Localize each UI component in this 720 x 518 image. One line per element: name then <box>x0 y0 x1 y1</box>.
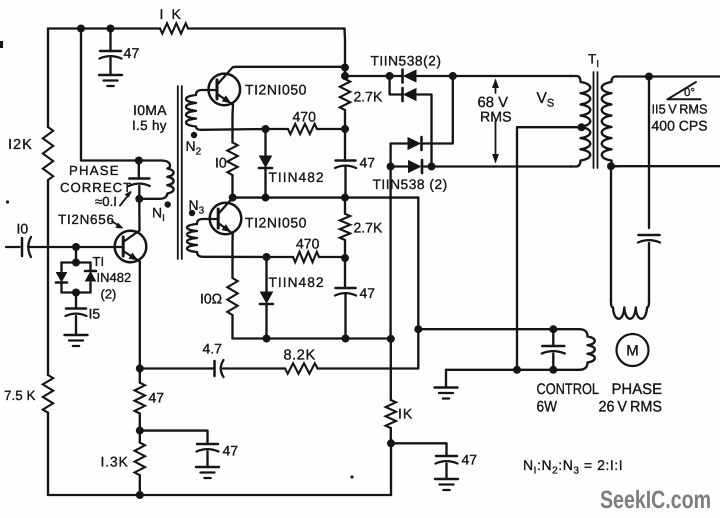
svg-text:PHASE: PHASE <box>69 163 120 178</box>
node diode-pair top <box>72 259 80 267</box>
wire top rail <box>48 27 345 29</box>
svg-text:TIIN482: TIIN482 <box>269 275 325 290</box>
label ratio <box>523 457 623 477</box>
label 1N482 <box>97 270 132 285</box>
wire cap47BM <box>140 431 208 444</box>
wire 1K to dot <box>390 428 392 443</box>
svg-text:47: 47 <box>223 443 239 459</box>
svg-text:7.5 K: 7.5 K <box>4 388 36 403</box>
resistor R 1K top <box>160 23 188 33</box>
svg-text:II5 V RMS: II5 V RMS <box>652 102 708 117</box>
transformer T1 secondary <box>602 77 618 167</box>
diode D4 1N538 <box>409 160 423 173</box>
wire 470 lower <box>267 256 346 258</box>
wire upper collector <box>233 66 345 69</box>
label 8.2K <box>284 348 316 364</box>
svg-text:RMS: RMS <box>480 110 512 126</box>
node 470up right <box>341 125 349 133</box>
svg-text:47: 47 <box>360 155 376 171</box>
capacitor C 47 upper <box>335 161 356 169</box>
wire center tap <box>517 127 582 370</box>
diode D left 1N482 <box>56 273 67 283</box>
svg-text:2.7K: 2.7K <box>354 89 383 105</box>
svg-text:470: 470 <box>296 236 320 252</box>
ground top-left <box>99 75 122 86</box>
svg-text:TIIN538(2): TIIN538(2) <box>371 54 442 69</box>
node 47-1.3K <box>136 427 144 435</box>
svg-text:N2: N2 <box>186 138 202 158</box>
wire 345 seg1 <box>344 68 346 80</box>
node rail-1.3K <box>136 491 144 499</box>
resistor R 470 lower <box>293 252 319 262</box>
svg-text:2.7K: 2.7K <box>354 220 383 236</box>
label 1.3K <box>101 454 129 470</box>
svg-text:47: 47 <box>360 285 376 301</box>
wire 8.2K left <box>223 367 285 369</box>
wire emitter to B <box>231 315 233 339</box>
svg-text:I: I <box>160 6 164 22</box>
node 470low right <box>341 254 349 262</box>
label 10ohm <box>200 291 222 307</box>
label 1.5hy <box>132 118 167 133</box>
svg-text:≈0.I: ≈0.I <box>95 194 117 209</box>
svg-text:47: 47 <box>149 390 165 406</box>
svg-text:TI2NI050: TI2NI050 <box>245 215 307 231</box>
diode D right 1N482 <box>85 271 96 281</box>
svg-text:PHASE: PHASE <box>612 381 663 398</box>
label 7.5K <box>4 388 36 403</box>
label CONTROL PHASE <box>537 381 663 398</box>
diode D3 1N538 <box>408 137 422 150</box>
label 0deg <box>684 87 695 99</box>
svg-text:0°: 0° <box>684 87 695 99</box>
wire diode-pair stem <box>75 247 77 263</box>
wire 10res to collector node <box>231 175 233 198</box>
capacitor C 15 <box>66 293 87 336</box>
wire 345 seg3 <box>344 167 346 198</box>
node 1K bottom <box>387 439 395 447</box>
svg-text:26 V RMS: 26 V RMS <box>599 399 663 416</box>
label T1IN482 upper <box>269 170 325 185</box>
node T1 center tap <box>578 123 586 131</box>
transistor Q T12N656 <box>115 231 147 263</box>
svg-text:VS: VS <box>537 90 555 110</box>
transformer T1 primary <box>570 76 590 167</box>
inductor motor main winding <box>611 299 649 319</box>
node B cap <box>342 335 350 343</box>
svg-text:I0: I0 <box>17 221 29 237</box>
wire bridge top rail <box>345 75 572 77</box>
wire 4.7 left <box>140 367 215 369</box>
inductor winding N1 <box>143 161 174 199</box>
motor M <box>617 334 649 366</box>
label 68V <box>478 95 509 111</box>
label Vs <box>537 90 555 110</box>
svg-text:IK: IK <box>398 406 413 422</box>
wire cap47TL stub <box>109 29 111 76</box>
label (2) <box>101 287 117 302</box>
wire T656 emitter down <box>139 262 141 369</box>
label 400CPS <box>652 118 708 134</box>
node control cap top <box>549 325 557 333</box>
resistor R 47 <box>135 383 145 414</box>
svg-text:400 CPS: 400 CPS <box>652 118 708 134</box>
label 2.7K lower <box>354 220 383 236</box>
svg-text:K: K <box>172 6 182 22</box>
wire left vertical middle <box>47 180 49 375</box>
svg-text:M: M <box>626 343 639 360</box>
diode D T1IN482 upper <box>259 129 272 198</box>
wire D3 branch <box>391 76 453 167</box>
resistor R 470 upper <box>288 124 317 134</box>
label 10 res <box>215 155 227 171</box>
transistor Q upper T12N1050 <box>209 67 241 105</box>
wire bottom rail <box>48 494 391 496</box>
node A diode <box>262 194 270 202</box>
svg-text:I0MA: I0MA <box>133 102 167 118</box>
label 47 bottom-middle <box>223 443 239 459</box>
resistor R 2.7K lower <box>340 214 350 240</box>
label T12N656 <box>58 212 124 229</box>
node emitter-47 <box>136 365 144 373</box>
label 1K <box>160 6 182 22</box>
watermark SeekIC.com <box>600 486 711 514</box>
svg-text:CONTROL: CONTROL <box>537 381 600 398</box>
inductor winding N2 <box>186 90 265 130</box>
node collector-2.7K <box>341 64 349 72</box>
svg-text:6W: 6W <box>537 399 558 416</box>
label 10MA <box>133 102 167 118</box>
capacitor C 47 bottom-middle <box>197 444 219 452</box>
capacitor C 47 bottom-right <box>436 456 458 464</box>
speck 1 <box>350 475 353 478</box>
resistor R 10ohm <box>227 278 237 315</box>
label 15 <box>89 306 101 322</box>
inductor winding N3 <box>187 219 266 257</box>
label 10 input <box>17 221 29 237</box>
capacitor C 10 input <box>22 237 31 257</box>
node right-top <box>645 73 653 81</box>
label 1K bottom <box>398 406 413 422</box>
node tap-control <box>513 366 521 374</box>
label 47 bottom-right <box>462 452 478 468</box>
annotation arrow 0.1 <box>120 191 132 206</box>
transformer core <box>178 86 182 259</box>
wire 345 top corner <box>343 29 346 68</box>
svg-text:TI: TI <box>93 254 105 269</box>
resistor R 1.3K <box>135 443 145 476</box>
svg-text:4.7: 4.7 <box>203 341 223 357</box>
label T1 <box>588 52 599 71</box>
ground below 15 <box>65 335 88 346</box>
resistor R 10 <box>227 143 237 176</box>
label 6W <box>537 399 558 416</box>
resistor R 8.2K <box>285 363 318 373</box>
label 115VRMS <box>652 102 708 117</box>
wire A horizontal <box>233 196 419 198</box>
label 470 upper <box>293 109 317 125</box>
svg-text:CORRECT: CORRECT <box>60 180 132 195</box>
svg-text:470: 470 <box>293 109 317 125</box>
capacitor C 47 lower <box>335 288 356 296</box>
wire e47 <box>139 369 141 383</box>
wire motor left vertical <box>610 166 612 300</box>
svg-text:I0Ω: I0Ω <box>200 291 222 307</box>
label T1IN538 bottom <box>373 177 448 192</box>
node right-bottom <box>607 162 615 170</box>
label PHASE <box>69 163 120 178</box>
svg-text:TIIN538 (2): TIIN538 (2) <box>373 177 448 192</box>
wire input base <box>29 246 124 248</box>
wire 418 vertical <box>318 198 419 369</box>
node R bottom <box>428 163 436 171</box>
wire cap47BM stub <box>206 452 208 468</box>
svg-text:47: 47 <box>124 46 140 62</box>
wire input left <box>6 246 20 248</box>
wire rail riser <box>390 443 392 495</box>
wire 345 seg2 <box>344 110 346 161</box>
speck 2 <box>6 200 9 203</box>
node control-top <box>414 325 422 333</box>
node L bottom <box>387 163 395 171</box>
wire B horizontal <box>233 337 391 339</box>
label T1 <box>93 254 105 269</box>
diode D1 1N538 <box>403 70 417 83</box>
label 47 res <box>149 390 165 406</box>
wire 390 vertical <box>389 167 392 401</box>
node 470up left <box>262 125 270 133</box>
wire 470 upper <box>266 128 346 130</box>
wire right bottom rail <box>615 165 720 167</box>
inductor control phase winding <box>579 329 595 370</box>
label 47 top-left <box>124 46 140 62</box>
label T1IN482 lower <box>269 275 325 290</box>
svg-text:NI: NI <box>152 205 165 225</box>
transistor Q lower T12N1050 <box>210 198 242 235</box>
resistor R 12K <box>43 127 53 180</box>
capacitor C 4.7 <box>215 360 224 377</box>
svg-text:TI2N656: TI2N656 <box>58 212 115 227</box>
wire left vertical lower <box>47 413 49 495</box>
capacitor C 47 top-left <box>100 51 122 59</box>
node top-B <box>107 25 115 33</box>
wire right top rail <box>616 75 720 77</box>
node N1 phasing dot <box>165 201 171 207</box>
wire diode-pair box <box>62 263 91 293</box>
diode D T1IN482 lower <box>260 257 273 339</box>
svg-text:I2K: I2K <box>8 137 33 153</box>
node phase-top <box>135 157 143 165</box>
svg-text:SeekIC.com: SeekIC.com <box>600 486 711 514</box>
node N3 phasing dot <box>189 210 195 216</box>
label 26VRMS <box>599 399 663 416</box>
wire control bottom <box>446 369 579 371</box>
wire 345 seg5 <box>344 240 346 288</box>
annotation 68V arrow <box>492 79 499 164</box>
wire bridge bottom rail <box>391 165 572 167</box>
node diode-pair bottom <box>72 289 80 297</box>
svg-text:NI:N2:N3 = 2:I:I: NI:N2:N3 = 2:I:I <box>523 457 623 477</box>
svg-text:I.5 hy: I.5 hy <box>132 118 167 133</box>
resistor R 7.5K <box>43 375 53 413</box>
wire 345 seg4 <box>344 198 346 214</box>
label 47 upper <box>360 155 376 171</box>
capacitor C phase-correct 0.1 <box>129 161 150 199</box>
svg-text:(2): (2) <box>101 287 117 302</box>
node B diode <box>263 335 271 343</box>
transformer T1 core <box>594 72 598 168</box>
svg-text:IN482: IN482 <box>97 270 132 285</box>
capacitor C motor <box>638 235 660 243</box>
svg-text:TIIN482: TIIN482 <box>269 170 325 185</box>
resistor R 1K bottom <box>386 400 396 428</box>
wire upper emitter <box>231 105 234 143</box>
wire 345 seg6 <box>344 295 346 339</box>
label 2.7K upper <box>354 89 383 105</box>
svg-text:TI2NI050: TI2NI050 <box>245 82 307 98</box>
label N3 <box>189 197 205 217</box>
label 47 lower <box>360 285 376 301</box>
node 470low left <box>263 253 271 261</box>
label RMS <box>480 110 512 126</box>
svg-text:I.3K: I.3K <box>101 454 129 470</box>
svg-text:I0: I0 <box>215 155 227 171</box>
wire motor right vertical <box>648 77 650 301</box>
wire 1.3K stub <box>139 431 141 495</box>
node P top <box>386 72 394 80</box>
node Q top <box>449 72 457 80</box>
speck edge <box>0 41 3 48</box>
node bridge-rail <box>341 72 349 80</box>
node N2 phasing dot <box>191 132 197 138</box>
wire control gnd stub <box>445 370 447 388</box>
wire control top <box>418 328 579 330</box>
resistor R 2.7K upper <box>340 79 350 110</box>
wire phase drop <box>81 29 161 161</box>
svg-text:47: 47 <box>462 452 478 468</box>
label CORRECT <box>60 180 132 195</box>
wire T656 collector <box>138 199 141 231</box>
node A mid <box>229 194 237 202</box>
label 4.7 <box>203 341 223 357</box>
wire cap47BR <box>391 443 447 456</box>
node phase-bot <box>135 195 143 203</box>
annotation angle 0deg <box>668 82 701 99</box>
wire 47 to node <box>139 414 141 431</box>
node base T656 <box>72 243 80 251</box>
diode D2 1N538 <box>403 88 417 101</box>
wire cap47BR stub <box>445 464 447 480</box>
label T1IN538 top <box>371 54 442 69</box>
ground bottom-middle <box>196 467 219 478</box>
label N1 <box>152 205 165 225</box>
node A cap <box>341 194 349 202</box>
capacitor C control <box>542 329 565 370</box>
node top-A <box>77 25 85 33</box>
svg-text:TI: TI <box>588 52 599 71</box>
label T12N1050 lower <box>245 215 307 231</box>
node control cap bottom <box>549 366 557 374</box>
ground bottom-right <box>435 479 458 490</box>
ground control <box>435 388 458 399</box>
label 12K <box>8 137 33 153</box>
wire lower emitter <box>231 234 234 279</box>
label N2 <box>186 138 202 158</box>
node B right <box>387 335 395 343</box>
label T12N1050 upper <box>245 82 307 98</box>
wire left vertical upper <box>47 29 49 128</box>
svg-text:I5: I5 <box>89 306 101 322</box>
label 470 lower <box>296 236 320 252</box>
svg-text:8.2K: 8.2K <box>284 348 316 364</box>
wire D2 branch <box>390 76 432 167</box>
label approx 0.1 <box>95 194 117 209</box>
